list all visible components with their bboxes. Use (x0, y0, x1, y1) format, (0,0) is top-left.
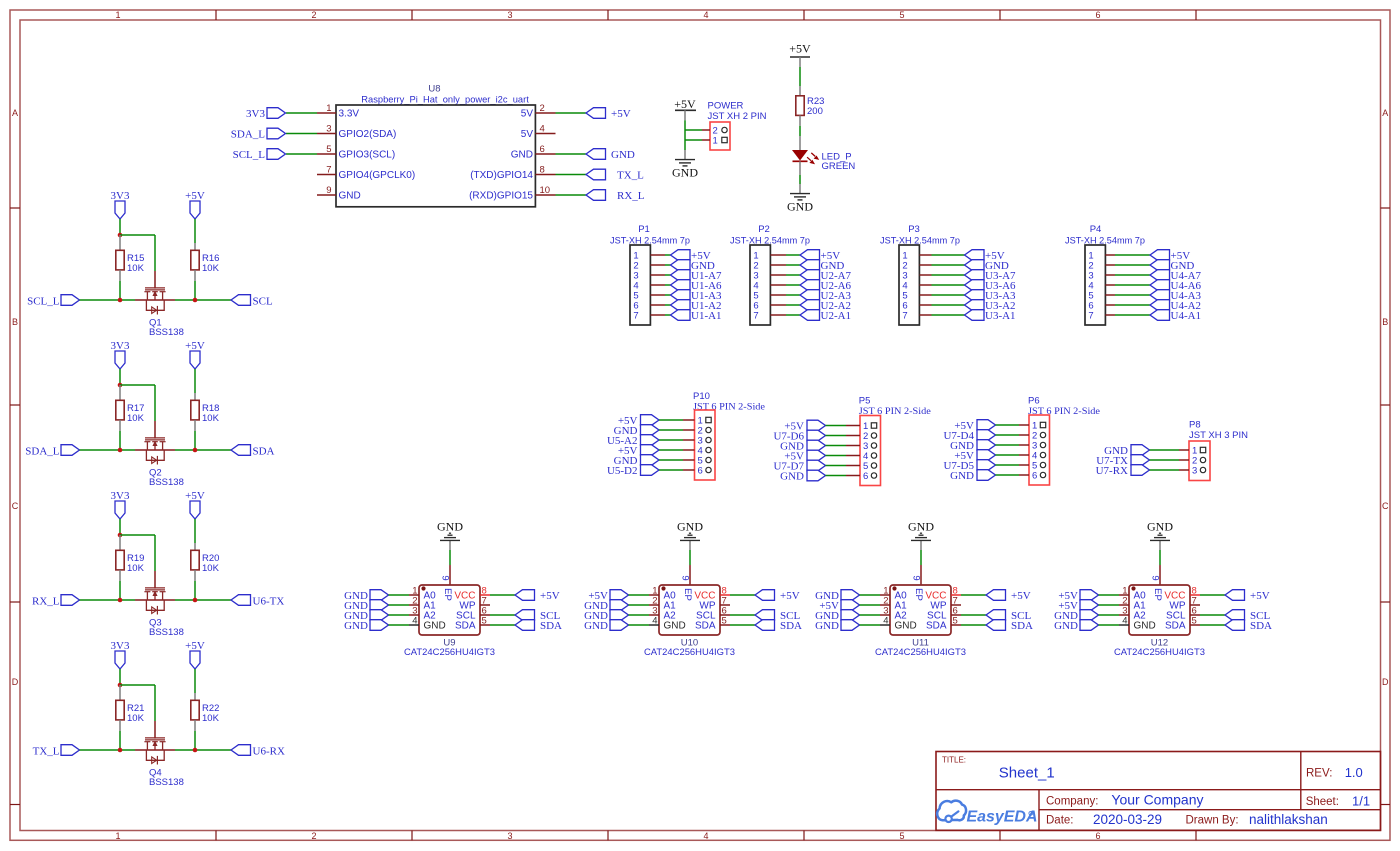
svg-text:GND: GND (780, 471, 804, 483)
svg-text:SDA: SDA (1250, 620, 1272, 632)
wire R19 to RX_L line (119, 581, 121, 600)
U9 pin 8 VCC (454, 586, 490, 602)
net flag RX_L (586, 190, 645, 202)
net flag U4-A2 (1150, 300, 1201, 312)
resistor R21 (116, 685, 124, 731)
net flag +5V (P6 pin 4) (954, 450, 995, 462)
svg-text:+5V: +5V (185, 190, 205, 202)
net flag U3-A7 (965, 270, 1017, 282)
net flag 3V3 (246, 108, 285, 120)
wire P1 pin 3 to U1-A7 (665, 274, 671, 276)
title block Sheet field (1306, 794, 1370, 809)
title block Drawn By field (1186, 812, 1328, 827)
wire 3V3 to R19 (119, 519, 121, 535)
U10 pin 9 EP (680, 565, 691, 585)
svg-text:2: 2 (311, 831, 316, 841)
svg-text:P5: P5 (859, 395, 871, 406)
connector P1 body (630, 245, 650, 325)
wire U8 pin 6 to GND (556, 153, 587, 155)
title block Date field (1046, 812, 1162, 827)
net flag U5-A2 (P10 pin 3) (607, 435, 659, 447)
wire P3 pin 1 to +5V (932, 254, 965, 256)
power symbol +5V (LED branch) (789, 42, 811, 68)
wire GND to U10 pin 4 (629, 624, 650, 626)
node junction SCL (193, 298, 198, 303)
wire R22 to U6-RX line (194, 731, 196, 750)
svg-text:7: 7 (326, 165, 331, 176)
title block Company field (1046, 792, 1203, 808)
U8 pin 2 5V (521, 103, 556, 120)
P1 pin 7 (633, 311, 665, 322)
net flag GND (U12 pin 4) (1054, 620, 1098, 632)
net flag U3-A6 (965, 280, 1017, 292)
U10 pin 5 SDA (695, 616, 730, 632)
wire GND to U9 pin 4 (389, 624, 410, 626)
svg-text:SDA: SDA (926, 621, 947, 632)
P6 pin 3 (1019, 441, 1046, 452)
svg-text:4: 4 (652, 616, 657, 627)
wire P3 pin 7 to U3-A1 (932, 314, 965, 316)
net flag GND (U9 pin 4) (344, 620, 388, 632)
svg-text:U8: U8 (428, 83, 440, 94)
svg-text:C: C (12, 501, 19, 511)
resistor R23 (796, 86, 804, 126)
svg-text:Date:: Date: (1046, 815, 1074, 827)
U11 pin 5 SDA (926, 616, 961, 632)
wire +5V to U12 pin 1 (1099, 594, 1120, 596)
svg-text:GPIO4(GPCLK0): GPIO4(GPCLK0) (339, 170, 416, 181)
svg-text:+5V: +5V (780, 590, 800, 602)
svg-text:5: 5 (899, 10, 904, 20)
svg-text:4: 4 (883, 616, 888, 627)
P4 pin 7 (1088, 311, 1115, 322)
U10 pin 1 A0 (649, 586, 676, 602)
wire GND to P6 pin 3 (996, 444, 1020, 446)
U12 pin 3 A2 (1119, 606, 1146, 622)
svg-text:3: 3 (1192, 466, 1197, 477)
svg-text:8: 8 (540, 165, 545, 176)
net flag +5V (800, 250, 840, 262)
svg-text:SDA_L: SDA_L (25, 446, 60, 458)
svg-text:U2-A1: U2-A1 (821, 310, 852, 322)
wire R20 to U6-TX line (194, 581, 196, 600)
svg-text:10K: 10K (202, 413, 220, 424)
U11 pin 2 A1 (880, 596, 907, 612)
net flag GND (U9 pin 3) (344, 610, 388, 622)
net flag TX_L (33, 745, 80, 758)
U10 pin 6 SCL (696, 606, 730, 622)
EasyEDA logo (937, 801, 1037, 826)
wire GND to U11 pin 3 (860, 614, 881, 616)
connector P5 body (860, 416, 881, 486)
svg-text:10K: 10K (202, 563, 220, 574)
P6 pin 6 (1019, 471, 1046, 482)
svg-text:5: 5 (722, 616, 727, 627)
svg-text:+5V: +5V (1250, 590, 1270, 602)
net flag U4-A1 (1150, 310, 1201, 322)
wire GND to P8 pin 1 (1150, 449, 1180, 451)
wire P1 pin 4 to U1-A6 (665, 284, 671, 286)
wire +5V to P5 pin 1 (826, 425, 847, 427)
svg-text:GND: GND (611, 149, 635, 161)
P10 pin 3 (683, 436, 711, 447)
svg-text:+5V: +5V (185, 490, 205, 502)
wire U7-D5 to P6 pin 5 (996, 464, 1020, 466)
svg-text:GND: GND (584, 620, 608, 632)
node junction RX_L (118, 598, 123, 603)
svg-text:2: 2 (311, 10, 316, 20)
net flag U7-D6 (P5 pin 2) (773, 430, 825, 442)
P5 pin 1 (846, 421, 877, 432)
net flag GND (U9 pin 2) (344, 600, 388, 612)
svg-text:5: 5 (482, 616, 487, 627)
svg-text:+5V: +5V (185, 340, 205, 352)
svg-text:+5V: +5V (1011, 590, 1031, 602)
svg-text:SDA: SDA (253, 446, 275, 458)
wire P1 pin 5 to U1-A3 (665, 294, 671, 296)
net flag U4-A7 (1150, 270, 1202, 282)
wire P4 pin 3 to U4-A7 (1115, 274, 1150, 276)
node junction SDA_L (118, 448, 123, 453)
svg-text:GND: GND (1134, 621, 1156, 632)
net flag GND (U11 pin 1) (815, 590, 859, 602)
svg-text:GND: GND (511, 150, 533, 161)
Q2 BSS138 labels (149, 468, 184, 489)
connector P10 labels (693, 391, 765, 413)
svg-text:REV:: REV: (1306, 768, 1332, 780)
P3 pin 2 (902, 261, 931, 272)
connector P1 labels (610, 224, 690, 246)
power flag 3V3 (Q2 row) (111, 340, 130, 369)
connector P8 labels (1189, 419, 1248, 441)
wire P2 pin 6 to U2-A2 (786, 304, 800, 306)
svg-text:JST XH 3 PIN: JST XH 3 PIN (1189, 430, 1248, 441)
R21 value labels (127, 703, 145, 724)
net flag U2-A6 (800, 280, 852, 292)
svg-text:+5V: +5V (789, 42, 811, 56)
R16 value labels (202, 253, 220, 274)
wire GND to P5 pin 3 (826, 445, 847, 447)
wire SDA_L to Q2 (80, 449, 136, 451)
svg-text:3V3: 3V3 (246, 108, 265, 120)
svg-text:GREEN: GREEN (822, 161, 856, 172)
wire GND to U10 pin 2 (629, 604, 650, 606)
resistor R17 (116, 385, 124, 431)
wire +5V to P5 pin 4 (826, 455, 847, 457)
svg-text:6: 6 (540, 144, 545, 155)
U8 pin 8 (TXD)GPIO14 (470, 165, 555, 182)
wire U7-D4 to P6 pin 2 (996, 434, 1020, 436)
svg-text:B: B (12, 317, 18, 327)
wire U9 pin 6 to SCL (490, 614, 515, 616)
wire U10 pin 8 to +5V (730, 594, 755, 596)
net flag GND (U10 pin 4) (584, 620, 628, 632)
wire U9 pin 8 to +5V (490, 594, 515, 596)
wire +5V to U11 pin 2 (860, 604, 881, 606)
wire GND to P10 pin 5 (659, 459, 683, 461)
wire GND to U12 pin 3 (1099, 614, 1120, 616)
U8 pin 10 (RXD)GPIO15 (469, 185, 555, 202)
svg-text:GND: GND (1054, 620, 1078, 632)
net flag GND (U12 pin 3) (1054, 610, 1098, 622)
svg-text:CAT24C256HU4IGT3: CAT24C256HU4IGT3 (404, 647, 495, 658)
ground GND (POWER) (672, 150, 698, 180)
R15 value labels (127, 253, 145, 274)
wire U10 pin 6 to SCL (730, 614, 755, 616)
svg-text:D: D (1382, 677, 1389, 687)
wire +5V to R23 (799, 67, 801, 86)
U9 pin 3 A2 (409, 606, 436, 622)
net flag +5V (P5 pin 1) (784, 420, 825, 432)
svg-text:CAT24C256HU4IGT3: CAT24C256HU4IGT3 (1114, 647, 1205, 658)
node junction 3V3/R17/Q2 gate (118, 383, 123, 388)
IC U10 body (659, 585, 720, 635)
wire R17 to SDA_L line (119, 431, 121, 450)
svg-text:1.0: 1.0 (1345, 765, 1363, 780)
wire GND to U9 pin 1 (389, 594, 410, 596)
op-amp U8 label (428, 83, 440, 94)
connector P3 body (899, 245, 919, 325)
wire +5V to R20 (194, 519, 196, 543)
resistor R19 (116, 535, 124, 581)
connector P6 body (1029, 415, 1050, 485)
R23 value labels (807, 96, 824, 117)
power symbol +5V (POWER input) (674, 97, 696, 120)
P1 pin 5 (633, 291, 665, 302)
U10 pin 3 A2 (649, 606, 676, 622)
svg-text:10K: 10K (127, 713, 145, 724)
title block TITLE field (942, 755, 1055, 781)
P4 pin 3 (1088, 271, 1115, 282)
svg-text:5: 5 (953, 616, 958, 627)
P3 pin 3 (902, 271, 931, 282)
svg-text:P1: P1 (638, 224, 650, 235)
net flag U7-RX (P8 pin 3) (1096, 465, 1150, 477)
P6 pin 2 (1019, 431, 1046, 442)
svg-text:TITLE:: TITLE: (942, 755, 966, 764)
P1 pin 4 (633, 281, 665, 292)
wire +5V to R22 (194, 669, 196, 693)
U12 pin 8 VCC (1164, 586, 1200, 602)
power flag +5V (Q4 row) (185, 640, 205, 669)
wire U8 pin 2 to +5V (556, 112, 587, 114)
svg-text:SDA: SDA (1011, 620, 1033, 632)
P10 pin 4 (683, 446, 711, 457)
net flag U1-A3 (671, 290, 723, 302)
wire U11 pin 6 to SCL (961, 614, 986, 616)
svg-text:P6: P6 (1028, 395, 1040, 406)
net flag SCL_L (27, 295, 79, 308)
R20 value labels (202, 553, 220, 574)
svg-text:GND: GND (424, 621, 446, 632)
net flag U2-A7 (800, 270, 852, 282)
P5 pin 3 (846, 441, 877, 452)
wire GND to U10 pin 9 (689, 550, 691, 565)
net flag +5V (U12 pin 1) (1058, 590, 1098, 602)
P5 pin 2 (846, 431, 877, 442)
connector P4 body (1085, 245, 1105, 325)
wire +5V to U12 pin 2 (1099, 604, 1120, 606)
wire P2 pin 2 to GND (786, 264, 800, 266)
P2 pin 6 (753, 301, 786, 312)
svg-text:9: 9 (326, 185, 331, 196)
U12 pin 6 SCL (1166, 606, 1200, 622)
svg-text:10K: 10K (127, 413, 145, 424)
net flag GND (P10 pin 5) (614, 455, 659, 467)
wire U5-A2 to P10 pin 3 (659, 439, 683, 441)
svg-text:1: 1 (115, 831, 120, 841)
U8 pin 3 GPIO2(SDA) (317, 124, 396, 141)
U12 pin 2 A1 (1119, 596, 1146, 612)
P5 pin 5 (846, 461, 877, 472)
svg-text:6: 6 (698, 466, 703, 477)
svg-text:3: 3 (507, 831, 512, 841)
wire Q1 to SCL (175, 299, 231, 301)
P4 pin 5 (1088, 291, 1115, 302)
svg-text:10K: 10K (127, 263, 145, 274)
svg-text:P3: P3 (908, 224, 920, 235)
svg-text:3V3: 3V3 (111, 490, 130, 502)
net flag SCL (231, 295, 273, 308)
svg-text:TX_L: TX_L (33, 746, 60, 758)
Q1 BSS138 labels (149, 318, 184, 339)
svg-text:U6-TX: U6-TX (253, 596, 285, 608)
net flag U1-A1 (671, 310, 722, 322)
svg-text:BSS138: BSS138 (149, 477, 184, 488)
svg-text:(RXD)GPIO15: (RXD)GPIO15 (469, 191, 533, 202)
wire +5V to U10 pin 1 (629, 594, 650, 596)
P8 pin 3 (1179, 466, 1206, 477)
resistor R16 (191, 243, 199, 281)
svg-text:GND: GND (950, 470, 974, 482)
svg-text:10K: 10K (202, 263, 220, 274)
connector P8 body (1189, 441, 1210, 481)
svg-text:BSS138: BSS138 (149, 627, 184, 638)
net flag +5V (U11 pin 2) (819, 600, 859, 612)
wire R16 to SCL line (194, 281, 196, 300)
wire GND to P5 pin 6 (826, 475, 847, 477)
P3 pin 6 (902, 301, 931, 312)
svg-text:2020-03-29: 2020-03-29 (1093, 812, 1162, 827)
net flag U7-TX (P8 pin 2) (1096, 455, 1149, 467)
svg-text:SDA: SDA (540, 620, 562, 632)
net flag +5V (U12 pin 2) (1058, 600, 1098, 612)
Q3 BSS138 labels (149, 618, 184, 639)
svg-text:D: D (12, 677, 19, 687)
svg-text:SDA: SDA (695, 621, 716, 632)
wire P1 pin 2 to GND (665, 264, 671, 266)
net flag SDA (U9 pin 5) (515, 620, 562, 632)
wire U9 pin 5 to SDA (490, 624, 515, 626)
net flag GND (P10 pin 2) (614, 425, 659, 437)
svg-text:5V: 5V (521, 129, 534, 140)
R19 value labels (127, 553, 145, 574)
svg-text:10K: 10K (127, 563, 145, 574)
U10 pin 8 VCC (694, 586, 730, 602)
U9 pin 7 WP (459, 596, 490, 612)
svg-text:2: 2 (540, 103, 545, 114)
R22 value labels (202, 703, 220, 724)
U12 pin 9 EP (1150, 565, 1161, 585)
wire R21 to TX_L line (119, 731, 121, 750)
ground GND (U12) (1147, 520, 1173, 551)
U8 pin 6 GND (511, 144, 556, 161)
wire TX_L to Q4 (80, 749, 136, 751)
wire P2 pin 3 to U2-A7 (786, 274, 800, 276)
U10 pin 7 WP (699, 596, 730, 612)
svg-text:RX_L: RX_L (617, 190, 645, 202)
svg-text:4: 4 (703, 10, 708, 20)
wire P4 pin 7 to U4-A1 (1115, 314, 1150, 316)
net flag +5V (965, 250, 1005, 262)
net flag U1-A6 (671, 280, 723, 292)
U11 pin 7 WP (930, 596, 961, 612)
wire P3 pin 5 to U3-A3 (932, 294, 965, 296)
svg-text:GND: GND (664, 621, 686, 632)
wire GND to P10 pin 2 (659, 429, 683, 431)
svg-text:CAT24C256HU4IGT3: CAT24C256HU4IGT3 (875, 647, 966, 658)
svg-text:9: 9 (911, 575, 922, 580)
svg-text:4: 4 (540, 124, 545, 135)
wire U10 pin 5 to SDA (730, 624, 755, 626)
svg-text:Your Company: Your Company (1111, 792, 1203, 808)
svg-text:6: 6 (1095, 10, 1100, 20)
wire +5V to R16 (194, 219, 196, 243)
P4 pin 2 (1088, 261, 1115, 272)
P10 pin 6 (683, 466, 711, 477)
U11 pin 3 A2 (880, 606, 907, 622)
svg-text:GND: GND (908, 520, 934, 534)
net flag GND (U11 pin 4) (815, 620, 859, 632)
svg-text:P2: P2 (758, 224, 770, 235)
P8 pin 2 (1179, 456, 1206, 467)
wire U7-D6 to P5 pin 2 (826, 435, 847, 437)
power flag +5V (Q1 row) (185, 190, 205, 219)
svg-text:SCL_L: SCL_L (233, 149, 266, 161)
wire P4 pin 4 to U4-A6 (1115, 284, 1150, 286)
svg-text:P10: P10 (693, 391, 710, 402)
wire U8 pin 10 to RX_L (556, 194, 587, 196)
net flag GND (U11 pin 3) (815, 610, 859, 622)
P6 pin 1 (1019, 421, 1046, 432)
net flag U7-D7 (P5 pin 5) (773, 460, 825, 472)
svg-text:5: 5 (1192, 616, 1197, 627)
svg-text:U1-A1: U1-A1 (691, 310, 722, 322)
net flag +5V (671, 250, 711, 262)
net flag +5V (U9 pin 8) (515, 590, 560, 602)
U9 labels (404, 637, 495, 658)
net flag GND (P5 pin 6) (780, 470, 825, 482)
node junction U6-RX (193, 748, 198, 753)
wire RX_L to Q3 (80, 599, 136, 601)
net flag SCL (U11 pin 6) (986, 610, 1031, 622)
P3 pin 1 (902, 251, 931, 262)
P1 pin 2 (633, 261, 665, 272)
wire R15 to SCL_L line (119, 281, 121, 300)
U11 pin 4 GND (880, 616, 917, 632)
wire +5V to P10 pin 4 (659, 449, 683, 451)
P1 pin 6 (633, 301, 665, 312)
wire GND to U12 pin 4 (1099, 624, 1120, 626)
ground GND (LED) (787, 184, 813, 214)
net flag +5V (U10 pin 8) (755, 590, 800, 602)
svg-text:7: 7 (1088, 311, 1093, 322)
power flag 3V3 (Q3 row) (111, 490, 130, 519)
net flag SDA (U12 pin 5) (1225, 620, 1272, 632)
svg-text:GPIO2(SDA): GPIO2(SDA) (339, 129, 397, 140)
wire P2 pin 1 to +5V (786, 254, 800, 256)
svg-text:+5V: +5V (611, 108, 631, 120)
